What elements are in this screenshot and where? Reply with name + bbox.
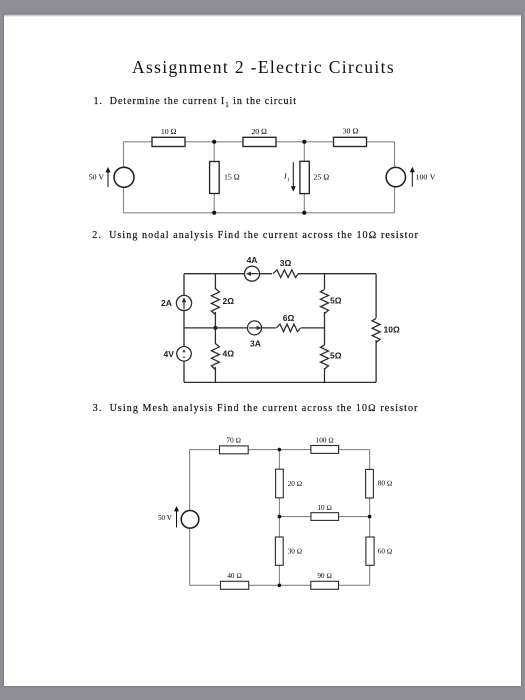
svg-text:6Ω: 6Ω <box>283 313 295 323</box>
svg-text:2Ω: 2Ω <box>223 296 235 306</box>
svg-text:40 Ω: 40 Ω <box>227 572 242 580</box>
svg-text:70 Ω: 70 Ω <box>227 437 242 445</box>
svg-text:5Ω: 5Ω <box>330 351 342 361</box>
svg-text:5Ω: 5Ω <box>330 296 342 306</box>
svg-text:80 Ω: 80 Ω <box>378 480 393 488</box>
svg-text:90 Ω: 90 Ω <box>317 572 332 580</box>
svg-text:30 Ω: 30 Ω <box>343 126 359 135</box>
svg-text:3Ω: 3Ω <box>280 258 292 268</box>
svg-text:2A: 2A <box>161 298 172 308</box>
svg-text:10 Ω: 10 Ω <box>161 127 177 136</box>
svg-text:1: 1 <box>287 177 290 183</box>
svg-text:30 Ω: 30 Ω <box>288 548 303 556</box>
svg-text:4Ω: 4Ω <box>223 349 235 359</box>
svg-text:100 Ω: 100 Ω <box>316 437 334 445</box>
svg-text:60 Ω: 60 Ω <box>378 548 393 556</box>
svg-text:4V: 4V <box>164 349 175 359</box>
svg-text:4A: 4A <box>247 255 258 265</box>
svg-text:20 Ω: 20 Ω <box>288 480 303 488</box>
svg-text:15 Ω: 15 Ω <box>224 173 240 182</box>
svg-text:10 Ω: 10 Ω <box>317 504 332 512</box>
svg-text:50 V: 50 V <box>89 173 105 182</box>
svg-text:25 Ω: 25 Ω <box>314 173 330 182</box>
svg-text:100 V: 100 V <box>416 173 436 182</box>
svg-text:10Ω: 10Ω <box>384 325 400 335</box>
svg-text:3A: 3A <box>250 339 261 349</box>
svg-text:20 Ω: 20 Ω <box>251 127 267 136</box>
svg-text:50 V: 50 V <box>158 514 173 522</box>
